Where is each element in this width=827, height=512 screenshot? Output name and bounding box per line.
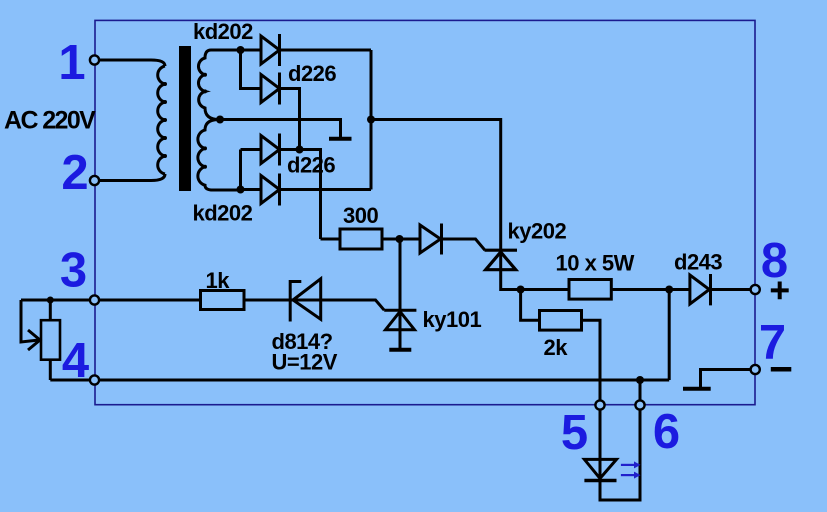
svg-text:2: 2 (61, 146, 87, 200)
svg-text:6: 6 (653, 405, 679, 459)
thyristor ky101 (384, 239, 416, 348)
potentiometer stem bottom (49, 360, 52, 380)
LED light arrows (621, 461, 641, 478)
svg-text:2k: 2k (544, 335, 569, 360)
svg-text:7: 7 (759, 316, 785, 370)
ground tick center tap (329, 137, 352, 141)
wire d226 bottom cathode junction to 300 feed (280, 150, 321, 240)
resistor 1k (201, 291, 245, 310)
wire anode d226 bottom (241, 148, 262, 151)
resistor 2k (540, 311, 582, 331)
junction node dots (47, 46, 673, 384)
svg-text:3: 3 (60, 244, 86, 298)
diode d243 (690, 274, 711, 305)
wire primary bottom to terminal2 (99, 174, 165, 181)
terminal 8 (751, 285, 760, 294)
svg-text:ky101: ky101 (423, 307, 482, 332)
wire kd202 top cathode to right vertical (280, 49, 372, 52)
wire rectifier output to ky202 anode-top (371, 120, 501, 251)
wire d243 junction down to negative rail (668, 290, 671, 381)
wire terminal 7 to ground (701, 370, 751, 388)
diode d226 top (261, 73, 280, 105)
terminal 1 (90, 55, 99, 64)
terminal 6 (635, 400, 644, 409)
LED cathode bar (584, 479, 616, 482)
transformer primary winding (158, 66, 165, 174)
svg-text:300: 300 (343, 203, 378, 228)
wire secondary bottom to kd202 bottom (241, 188, 262, 191)
wire terminal 6 drop (639, 380, 642, 405)
svg-text:d243: d243 (674, 250, 722, 275)
potentiometer body (41, 320, 60, 360)
wire 2k right to terminal 5 and LED (582, 320, 601, 459)
terminal 2 (90, 176, 99, 185)
wire ky202 cathode-bottom to output row (501, 250, 569, 289)
wire terminal 3 row (21, 299, 201, 302)
transformer secondary upper winding (198, 50, 240, 120)
transformer secondary lower winding (198, 120, 241, 191)
wire 300 feed into resistor (321, 238, 341, 241)
zener d814 (290, 279, 321, 322)
svg-text:5: 5 (561, 406, 587, 460)
potentiometer stem top (49, 300, 52, 321)
wire anode diode kd202 top (241, 49, 262, 52)
svg-text:kd202: kd202 (193, 201, 253, 226)
ground tick terminal 7 (683, 387, 711, 391)
winding cusp dots (163, 82, 167, 86)
potentiometer wiper wire (21, 300, 39, 342)
svg-text:U=12V: U=12V (272, 350, 338, 375)
diode after 300 (420, 224, 442, 255)
potentiometer wiper arrowhead (28, 330, 40, 350)
resistor 10x5W (569, 280, 611, 300)
border frame is drawn below (95, 20, 755, 404)
LED triangle (584, 459, 616, 478)
wire d243 to terminal 8 (711, 288, 751, 291)
minus sign terminal 7 (771, 367, 792, 372)
svg-text:1k: 1k (206, 268, 231, 293)
diode d226 bottom (261, 134, 280, 166)
wire junction down to 2k (521, 290, 540, 321)
wire diode to ky202 gate (442, 239, 485, 250)
svg-text:1: 1 (58, 36, 84, 90)
wire center tap to ground (220, 120, 341, 138)
wire kd202 bottom cathode to right vertical (280, 188, 372, 191)
LED loop wires (600, 380, 640, 500)
diode kd202 top (261, 34, 280, 66)
wire 1k to d814 to ky101 gate (244, 300, 384, 310)
terminal circles (90, 55, 760, 409)
svg-text:d226: d226 (287, 153, 335, 178)
transformer core (179, 46, 191, 191)
wire node B down to kd202 bottom anode (239, 150, 242, 190)
wire negative rail terminal 4 (50, 379, 669, 382)
terminal 4 (90, 375, 99, 384)
thyristor ky202 (485, 250, 518, 270)
resistor 300 (340, 229, 382, 249)
wire resistor 300 to diode (382, 238, 420, 241)
terminal 5 (595, 400, 604, 409)
terminal 7 (751, 365, 760, 374)
svg-text:kd202: kd202 (193, 19, 253, 44)
wire 10x5W to d243 (611, 288, 690, 291)
svg-text:AC 220V: AC 220V (4, 107, 96, 135)
svg-text:4: 4 (62, 334, 89, 388)
wire d226 top cathode down (280, 89, 300, 150)
svg-text:8: 8 (761, 234, 787, 288)
wire node A down to d226 top anode (241, 50, 262, 89)
svg-text:ky202: ky202 (508, 219, 567, 244)
wire rectifier output vertical (370, 50, 373, 190)
wire terminal1 to primary top (99, 60, 165, 66)
svg-text:10 x 5W: 10 x 5W (556, 251, 635, 276)
svg-text:d226: d226 (288, 61, 336, 86)
plus sign terminal 8 (771, 282, 789, 300)
ground tick ky101 (389, 348, 411, 352)
terminal 3 (90, 295, 99, 304)
diode kd202 bottom (261, 174, 280, 206)
